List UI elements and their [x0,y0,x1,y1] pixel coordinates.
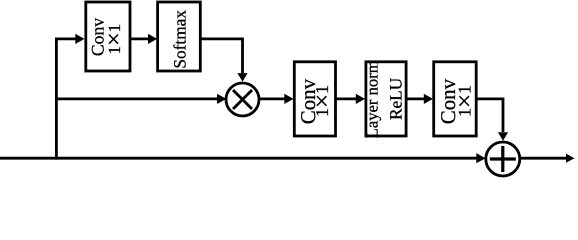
wire: C3 right then down into adder [476,99,503,132]
arrowhead into conv C3 [424,94,433,104]
arrowhead into adder from left [476,153,485,163]
svg-text:1×1: 1×1 [102,24,128,55]
wire: C2 to LayerNorm [336,98,358,101]
arrowhead into first conv box [75,34,84,44]
adder plus [501,146,504,172]
layer norm box [366,62,406,136]
wire: multiplier to conv C2 [259,98,286,101]
wire: bottom main line (input skip connection) [0,157,477,160]
arrowhead output [566,154,575,163]
wire: branch to Conv 1x1 (top) [55,38,76,41]
wire: C1 to Softmax [130,38,149,41]
svg-text:Softmax: Softmax [171,10,190,69]
arrowhead into multiplier from top [237,73,247,82]
multiplier X [233,90,252,109]
arrowhead into softmax box [148,34,157,44]
wire: middle branch to multiplier [55,98,218,101]
arrowhead into adder from top [498,132,508,141]
conv box C2 [294,62,335,136]
wire: LayerNorm to conv C3 [406,98,425,101]
conv box C3 [434,62,477,136]
svg-text:1×1: 1×1 [309,85,336,117]
arrowhead into conv C2 [284,94,293,104]
svg-text:ReLU: ReLU [386,77,405,120]
multiplier circle [226,83,259,116]
wire: vertical branch at left [55,38,58,160]
softmax box [158,2,201,71]
arrowhead into layer norm box [356,94,365,104]
svg-text:Layer norm: Layer norm [362,60,381,138]
wire: softmax right then down into multiplier [200,39,242,73]
arrowhead into multiplier from left [217,94,226,104]
adder circle [486,142,520,176]
svg-text:1×1: 1×1 [451,85,478,117]
conv box C1 [86,2,130,71]
wire: adder to output [520,157,566,160]
